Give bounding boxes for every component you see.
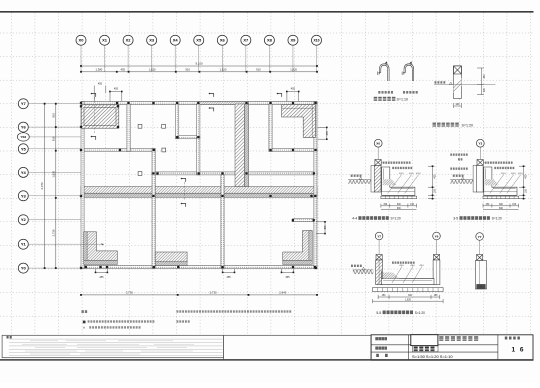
svg-text:X10: X10 — [313, 39, 319, 43]
dimension 455 right of wall lower — [316, 222, 325, 234]
dimension: X spans — [81, 71, 317, 73]
wall junction anchors — [80, 102, 317, 269]
svg-text:455: 455 — [99, 276, 104, 279]
detail: hook spec left (D10) — [378, 64, 389, 81]
L section outline — [382, 167, 415, 195]
X axis leaders — [81, 46, 317, 72]
caption: hook spec S=1:10 — [374, 97, 396, 101]
wall: X4 vertical to YS6 — [176, 104, 179, 139]
hatch patch — [383, 273, 399, 279]
svg-text:X8: X8 — [267, 38, 273, 43]
isolated footing posts — [138, 124, 166, 175]
bottom dimension — [381, 204, 417, 210]
axis bubble X9 — [288, 35, 298, 45]
Y axis leaders — [29, 104, 81, 268]
ground hatching — [348, 180, 371, 184]
bottom dimension — [483, 204, 519, 210]
svg-text:Y2: Y2 — [21, 217, 27, 222]
svg-text:1,820: 1,820 — [290, 68, 297, 72]
label D10 hook — [378, 91, 393, 94]
drawing title 基礎伏図 — [413, 346, 439, 352]
label 工事名称 — [375, 337, 387, 340]
new concrete hatch patch — [383, 179, 397, 185]
svg-text:X6: X6 — [220, 38, 226, 43]
label GL±0 — [453, 175, 464, 177]
svg-text:X9: X9 — [290, 38, 296, 43]
svg-text:455: 455 — [227, 276, 232, 279]
axis bubble YS6 — [17, 133, 29, 141]
dimension 455 below wall left — [96, 269, 108, 273]
svg-text:X5: X5 — [196, 38, 202, 43]
svg-text:455: 455 — [326, 131, 329, 136]
svg-text:X3: X3 — [149, 38, 155, 43]
beam: Y3 existing band lower — [81, 193, 317, 197]
svg-text:3-5: 3-5 — [453, 217, 458, 221]
wall: Y0 bottom outer wall — [81, 266, 317, 269]
note line 1 — [177, 310, 292, 312]
dimension: Y overall 6,370 — [44, 104, 46, 268]
wall: X7 hatched wide vertical — [235, 104, 244, 187]
svg-text:X0: X0 — [376, 142, 380, 146]
svg-text:Y5: Y5 — [21, 146, 27, 151]
memo label — [7, 336, 12, 339]
rebar leaders — [388, 175, 419, 194]
axis bubble X8 — [264, 35, 274, 45]
wall: X2 vertical upper — [127, 104, 130, 152]
svg-text:S=1:20: S=1:20 — [462, 123, 474, 127]
anchor box — [377, 165, 379, 172]
dimension: X overall 9,100 — [81, 65, 317, 67]
annotation left of 3-5 — [450, 154, 467, 156]
ground hatching — [450, 180, 473, 184]
svg-text:X4: X4 — [173, 38, 179, 43]
svg-text:-D10: -D10 — [399, 265, 405, 267]
axis bubble Y5 — [18, 144, 28, 154]
section mark right top — [278, 94, 282, 97]
wall strip — [433, 260, 440, 285]
dimension right of foundation — [477, 68, 484, 95]
axis bubble X3 — [147, 35, 157, 45]
svg-text:455: 455 — [324, 225, 327, 230]
svg-text:YS6: YS6 — [20, 135, 26, 139]
wall: Y4 wall — [152, 172, 317, 175]
label 図面名称 — [375, 347, 387, 350]
axis bubble Y6 — [18, 122, 28, 132]
svg-text:-D10: -D10 — [410, 265, 416, 267]
dimension 455 right of wall upper — [318, 127, 327, 139]
svg-text:Y4: Y4 — [21, 170, 27, 175]
base bar — [483, 196, 519, 199]
detail bubble X0 — [377, 147, 379, 160]
ground hatching left — [353, 270, 373, 274]
svg-text:1 6: 1 6 — [512, 346, 526, 353]
empty box between memo and title — [224, 335, 372, 360]
wall: Y7 hatched reinforced segment — [199, 102, 249, 105]
dimension 455 inside top-left — [94, 86, 106, 102]
svg-text:910: 910 — [185, 68, 190, 72]
base bar — [381, 196, 417, 199]
axis bubble Y1 — [18, 239, 28, 249]
label D13 hook — [403, 91, 418, 94]
svg-text:-D10: -D10 — [419, 265, 425, 267]
svg-text:1,820: 1,820 — [149, 68, 156, 72]
svg-text:X7: X7 — [243, 38, 249, 43]
Y1 leader extension — [81, 243, 104, 245]
detail bubble Y3 — [479, 147, 481, 160]
svg-text:455: 455 — [120, 68, 125, 72]
project name 耐震補強工事 — [439, 336, 478, 341]
faint handwriting noise — [22, 341, 194, 354]
wall: grid Y7 top outer wall — [81, 102, 317, 105]
svg-text:910: 910 — [51, 113, 55, 118]
svg-text:450: 450 — [483, 74, 486, 79]
svg-text:-D10: -D10 — [399, 173, 405, 175]
annotation text — [485, 162, 513, 164]
axis bubble X10 — [312, 35, 322, 45]
svg-text:Y7: Y7 — [377, 234, 381, 238]
svg-text:Y0: Y0 — [21, 266, 27, 271]
axis bubble Y7 — [18, 99, 28, 109]
svg-text:-D10: -D10 — [511, 173, 517, 175]
wall: Y2 stub wall right — [293, 219, 315, 222]
svg-text:S=1:20: S=1:20 — [415, 311, 425, 315]
beam: Y3 reinforcement band upper — [81, 187, 317, 194]
svg-text:910: 910 — [51, 136, 55, 141]
svg-text:Y1: Y1 — [21, 242, 27, 247]
right dimension — [428, 166, 435, 199]
svg-text:6,370: 6,370 — [40, 182, 44, 189]
svg-text:400: 400 — [434, 174, 437, 179]
annotation text — [383, 162, 411, 164]
title block — [371, 335, 533, 360]
legend 凡例 — [82, 310, 88, 313]
caption: existing foundation S=1:20 — [433, 123, 459, 127]
wall strip — [376, 260, 383, 285]
label 図面番号 — [505, 337, 520, 340]
wall: X10 right outer wall — [314, 102, 317, 269]
footing: hatched L pad top-right — [282, 105, 316, 138]
footing: pad bottom-middle — [155, 252, 187, 262]
svg-text:2,730: 2,730 — [51, 229, 55, 236]
wall strip — [476, 165, 483, 192]
axis bubble Y4 — [18, 167, 28, 177]
U slab — [382, 271, 435, 285]
footing: hatched pad X0-X1/Y7 — [81, 105, 119, 128]
right dimension — [519, 166, 526, 199]
wall: X3 vertical lower — [152, 148, 155, 268]
svg-text:X2: X2 — [126, 38, 132, 43]
axis bubble Y3 — [18, 191, 28, 201]
axis bubble X6 — [217, 35, 227, 45]
anchor box — [479, 165, 481, 172]
wall: X5 vertical to Y4 — [197, 104, 200, 175]
svg-text:Y3: Y3 — [21, 193, 27, 198]
svg-text:455: 455 — [114, 88, 119, 91]
wall: Y5 right segment — [269, 148, 317, 151]
svg-text:3,730: 3,730 — [126, 290, 133, 294]
svg-text:-D10: -D10 — [518, 173, 524, 175]
axis bubble Y0 — [18, 263, 28, 273]
svg-text:Y6: Y6 — [435, 234, 439, 238]
svg-text:S=1:20: S=1:20 — [391, 217, 401, 221]
label 縮 — [376, 354, 379, 357]
svg-text:455: 455 — [285, 276, 290, 279]
svg-text:300: 300 — [483, 87, 486, 92]
anchor box — [477, 255, 483, 261]
section mark C bottom — [210, 108, 214, 111]
axis bubble X0 — [76, 35, 86, 45]
note line 3 — [89, 326, 140, 328]
wall: X8 vertical upper — [269, 104, 272, 152]
axis bubble X2 — [123, 35, 133, 45]
svg-text:100: 100 — [455, 103, 460, 106]
svg-text:9,100: 9,100 — [196, 62, 203, 66]
base bar — [373, 288, 444, 292]
axis bubble X1 — [100, 35, 110, 45]
svg-text:Y3: Y3 — [478, 142, 482, 146]
svg-text:5-5: 5-5 — [376, 311, 381, 315]
ground line GL+40 — [434, 84, 495, 86]
new concrete hatch patch — [485, 179, 499, 185]
wall strip — [374, 165, 381, 192]
svg-text:2,640: 2,640 — [279, 290, 286, 294]
svg-text:4-4: 4-4 — [352, 217, 357, 221]
label GL±0 — [351, 265, 362, 267]
svg-text:1,820: 1,820 — [405, 299, 411, 301]
sheet top border — [0, 11, 534, 13]
svg-text:455: 455 — [291, 88, 296, 91]
dimension: bottom spans — [81, 294, 317, 296]
bottom dimensions 5-5 — [373, 295, 444, 303]
label 尺 — [385, 354, 388, 357]
axis bubble X5 — [194, 35, 204, 45]
svg-text:455: 455 — [98, 83, 103, 86]
detail: isolated pier Y7 — [479, 240, 481, 254]
note line 2 right — [177, 320, 190, 322]
wall: X0 left outer wall — [81, 102, 84, 269]
svg-text:-D10: -D10 — [409, 173, 415, 175]
label GL+40 — [435, 81, 446, 83]
wall: YS6 partition wall — [176, 136, 200, 139]
svg-text:Y7: Y7 — [478, 235, 482, 239]
anchor box — [376, 255, 382, 261]
dimension below foundation — [454, 103, 462, 108]
svg-text:S=1:50 S=1:20 S=1:10: S=1:50 S=1:20 S=1:10 — [412, 354, 453, 359]
slab annotation — [392, 262, 415, 264]
dimension 455 below wall right — [282, 269, 294, 273]
section mark A top — [92, 94, 96, 97]
dimension 455 above X1-X2 — [110, 92, 122, 102]
svg-text:150: 150 — [434, 189, 437, 194]
rebar leaders — [392, 267, 422, 284]
redaction box — [411, 335, 438, 346]
svg-text:1,820: 1,820 — [51, 170, 55, 177]
svg-text:X1: X1 — [102, 38, 108, 43]
note line 2 left — [88, 320, 155, 322]
axis bubble Y2 — [18, 215, 28, 225]
dimension 455 above X8-X9 — [287, 92, 299, 102]
axis bubble X4 — [170, 35, 180, 45]
rebar leaders — [490, 175, 521, 194]
section mark B top — [182, 179, 186, 182]
svg-text:Y6: Y6 — [21, 125, 27, 130]
svg-text:1,820: 1,820 — [220, 68, 227, 72]
pier body — [475, 261, 486, 290]
footing: stepped pad bottom-left — [84, 232, 118, 261]
L section outline — [484, 167, 517, 195]
svg-text:X0: X0 — [79, 38, 85, 43]
footing: stepped pad bottom-right — [283, 231, 313, 261]
dimension 455 below wall middle — [223, 269, 235, 273]
svg-text:1,380: 1,380 — [96, 68, 103, 72]
svg-text:400: 400 — [525, 174, 528, 179]
svg-text:S=1:10: S=1:10 — [397, 98, 409, 102]
detail bubble Y6 — [436, 240, 438, 255]
detail: existing foundation shape — [454, 66, 462, 99]
dimension: Y spans — [55, 104, 57, 268]
sheet bottom border — [0, 359, 534, 361]
section mark C top — [210, 94, 214, 97]
axis bubble X7 — [241, 35, 251, 45]
wall: X6 vertical lower — [221, 175, 224, 269]
anchor box — [433, 255, 439, 261]
svg-text:150: 150 — [525, 189, 528, 194]
detail bubble Y7 — [378, 240, 380, 255]
detail: hook spec right (D13) — [403, 64, 414, 81]
label GL±0 — [351, 175, 362, 177]
section mark A bottom — [92, 137, 96, 140]
memo table — [2, 335, 224, 357]
wall: Y5 left segment — [81, 148, 155, 151]
svg-text:-D10: -D10 — [501, 173, 507, 175]
svg-text:Y7: Y7 — [21, 101, 27, 106]
svg-text:-D10: -D10 — [416, 173, 422, 175]
section mark B bottom — [182, 204, 186, 207]
svg-text:2,730: 2,730 — [210, 290, 217, 294]
svg-text:S=1:20: S=1:20 — [492, 217, 502, 221]
svg-text:910: 910 — [256, 68, 261, 72]
